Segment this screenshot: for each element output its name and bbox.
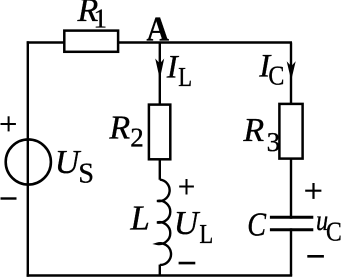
resistor R1 — [64, 31, 118, 52]
voltage source US minus polarity — [1, 197, 17, 199]
wire top rail — [27, 41, 292, 43]
svg-text:U: U — [174, 205, 201, 242]
inductor UL minus polarity — [179, 262, 196, 265]
capacitor C gap whiteout — [285, 219, 297, 229]
current arrow IC — [287, 61, 296, 80]
wire bottom rail — [27, 274, 293, 276]
voltage source US — [6, 139, 51, 184]
wire left rail — [27, 41, 29, 276]
inductor UL plus polarity — [179, 179, 194, 195]
svg-text:L: L — [178, 62, 192, 92]
svg-text:L: L — [129, 199, 149, 238]
wire middle branch lower — [159, 265, 161, 276]
svg-text:C: C — [268, 61, 284, 91]
resistor R3 — [279, 104, 302, 159]
svg-text:C: C — [326, 217, 342, 247]
capacitor uC plus polarity — [305, 183, 321, 199]
svg-text:S: S — [78, 158, 94, 189]
svg-text:C: C — [247, 206, 266, 243]
inductor L — [157, 180, 171, 265]
svg-text:R: R — [108, 109, 130, 146]
wire right rail — [290, 43, 292, 276]
capacitor C top plate — [270, 216, 313, 219]
svg-text:1: 1 — [94, 3, 108, 33]
svg-text:R: R — [242, 112, 264, 149]
capacitor C bottom plate — [270, 228, 313, 231]
voltage source US plus polarity — [1, 116, 16, 131]
current arrow IL — [155, 59, 164, 80]
svg-text:3: 3 — [267, 127, 281, 157]
resistor R2 — [149, 105, 170, 160]
capacitor uC minus polarity — [307, 255, 324, 258]
wire middle branch upper — [159, 43, 161, 180]
svg-text:2: 2 — [130, 122, 144, 152]
svg-text:A: A — [147, 10, 170, 49]
svg-text:L: L — [199, 219, 213, 249]
